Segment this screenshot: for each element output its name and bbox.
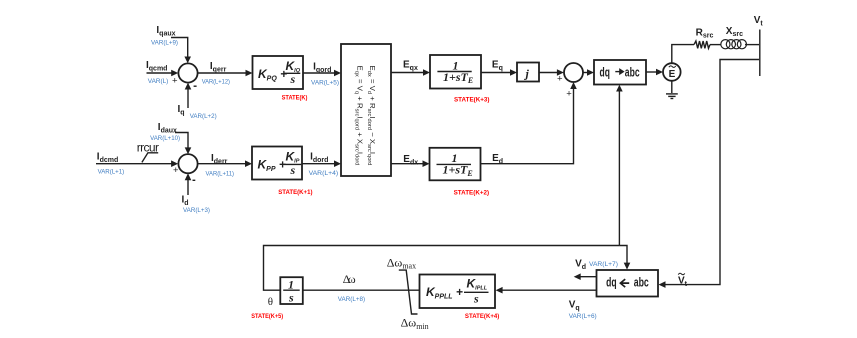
block j multiplier bbox=[517, 63, 539, 82]
node Iderr label bbox=[206, 153, 235, 178]
svg-text:STATE(K+5): STATE(K+5) bbox=[251, 313, 283, 320]
svg-text:VAR(L): VAR(L) bbox=[148, 78, 169, 85]
svg-text:Δω: Δω bbox=[343, 272, 356, 286]
svg-text:VAR(L+7): VAR(L+7) bbox=[589, 261, 618, 268]
summer S1 bbox=[172, 63, 198, 86]
summer S3 bbox=[557, 63, 583, 100]
node Idaux label bbox=[150, 122, 180, 142]
node Vt tilde label bbox=[678, 273, 688, 288]
limiter annotation bbox=[399, 270, 418, 314]
svg-text:VAR(L+6): VAR(L+6) bbox=[569, 313, 597, 320]
wire Ecalc to lag block d bbox=[391, 160, 430, 167]
node Id label bbox=[182, 195, 211, 214]
wire Xsrc to bus bbox=[745, 44, 759, 46]
wire dq2abc to source E bbox=[646, 69, 663, 76]
svg-text:θ: θ bbox=[268, 296, 273, 308]
wire j to summer S3 bbox=[539, 69, 564, 76]
wire Ecalc to lag block q bbox=[391, 69, 430, 76]
wire bus tap to dq from abc feedback Vt bbox=[659, 60, 760, 288]
svg-text:1: 1 bbox=[288, 278, 294, 292]
wire lag q to j block bbox=[481, 69, 517, 76]
block dq from abc bbox=[597, 270, 659, 297]
wire dw to integrator bbox=[303, 289, 420, 291]
node Iqord label bbox=[311, 62, 339, 87]
svg-text:VAR(L+9): VAR(L+9) bbox=[151, 40, 178, 47]
svg-text:s: s bbox=[473, 292, 479, 306]
node Idcmd label bbox=[97, 151, 124, 175]
summer S2 bbox=[173, 154, 198, 180]
wire Vq to KPLL block bbox=[496, 287, 597, 294]
ground bbox=[666, 81, 678, 99]
block KPLL PI controller bbox=[420, 275, 496, 309]
block dq to abc bbox=[594, 60, 646, 85]
svg-text:VAR(L+3): VAR(L+3) bbox=[183, 207, 210, 214]
svg-text:s: s bbox=[290, 72, 296, 86]
svg-text:STATE(K+3): STATE(K+3) bbox=[454, 97, 490, 104]
svg-text:dq: dq bbox=[606, 274, 617, 289]
svg-text:E: E bbox=[669, 69, 676, 80]
svg-text:s: s bbox=[290, 163, 296, 177]
wire S3 to dq2abc bbox=[583, 69, 594, 76]
node Iq label bbox=[178, 104, 217, 120]
block KPQ PI controller bbox=[253, 56, 304, 89]
svg-text:VAR(L+12): VAR(L+12) bbox=[202, 79, 230, 86]
wire theta to dq2abc bbox=[616, 85, 623, 246]
wire Iqaux to summer S1 bbox=[171, 38, 191, 64]
svg-text:VAR(L+8): VAR(L+8) bbox=[338, 296, 365, 303]
wire S1 to KPQ block bbox=[198, 70, 253, 77]
svg-text:+: + bbox=[557, 74, 563, 85]
wire theta to dq from abc bbox=[619, 246, 630, 270]
resistor Rsrc bbox=[694, 28, 713, 49]
wire Ed to summer S3 bbox=[481, 82, 577, 164]
node Idord label bbox=[309, 152, 339, 178]
block lag 1/(1+sTE) d-axis bbox=[430, 148, 481, 181]
svg-text:VAR(L+5): VAR(L+5) bbox=[311, 80, 339, 87]
inductor Xsrc bbox=[721, 26, 747, 49]
svg-text:VAR(L+1): VAR(L+1) bbox=[98, 169, 125, 176]
svg-text:STATE(K): STATE(K) bbox=[282, 95, 308, 102]
block Ecalc source voltage equations bbox=[341, 44, 391, 176]
svg-text:STATE(K+4): STATE(K+4) bbox=[465, 313, 499, 320]
wire Iqcmd to summer S1 bbox=[147, 70, 179, 77]
wire Idcmd to summer S2 bbox=[96, 160, 178, 167]
source E circle bbox=[663, 63, 681, 81]
wire KPQ to Ecalc block bbox=[303, 70, 341, 77]
wire Idaux to summer S2 bbox=[175, 133, 191, 155]
block integrator 1/s bbox=[280, 277, 303, 304]
bus Vt bbox=[754, 15, 764, 76]
svg-text:s: s bbox=[288, 291, 294, 305]
node Vq label bbox=[569, 300, 597, 320]
wire KPP to Ecalc block bbox=[302, 160, 341, 167]
wire theta from integrator bbox=[264, 246, 620, 291]
svg-text:+: + bbox=[566, 89, 572, 100]
svg-text:VAR(L+2): VAR(L+2) bbox=[190, 113, 217, 120]
wire S2 to KPP block bbox=[198, 160, 252, 167]
wire Id to summer S2 bbox=[185, 173, 192, 195]
svg-text:dq: dq bbox=[600, 64, 610, 79]
svg-text:STATE(K+1): STATE(K+1) bbox=[278, 189, 312, 196]
svg-text:+: + bbox=[173, 165, 179, 176]
svg-text:VAR(L+4): VAR(L+4) bbox=[309, 170, 339, 177]
block lag 1/(1+sTE) q-axis bbox=[430, 55, 481, 89]
node dw label bbox=[338, 272, 365, 303]
node Iqerr label bbox=[202, 61, 230, 86]
svg-text:STATE(K+2): STATE(K+2) bbox=[454, 190, 490, 197]
svg-text:abc: abc bbox=[634, 274, 649, 289]
node Vd label bbox=[575, 259, 618, 272]
svg-text:abc: abc bbox=[625, 64, 640, 79]
wire Iq to summer S1 bbox=[185, 83, 192, 108]
wire Rsrc to Xsrc bbox=[710, 44, 721, 46]
wire Vd output bbox=[574, 273, 597, 280]
label rrcur with leader bbox=[137, 140, 159, 162]
svg-text:+: + bbox=[172, 76, 178, 87]
block KPP PI controller bbox=[252, 147, 302, 180]
svg-text:VAR(L+11): VAR(L+11) bbox=[206, 171, 235, 178]
node Iqaux label bbox=[151, 25, 178, 47]
wire source E to Rsrc bbox=[672, 45, 694, 64]
node Iqcmd label bbox=[146, 60, 168, 85]
